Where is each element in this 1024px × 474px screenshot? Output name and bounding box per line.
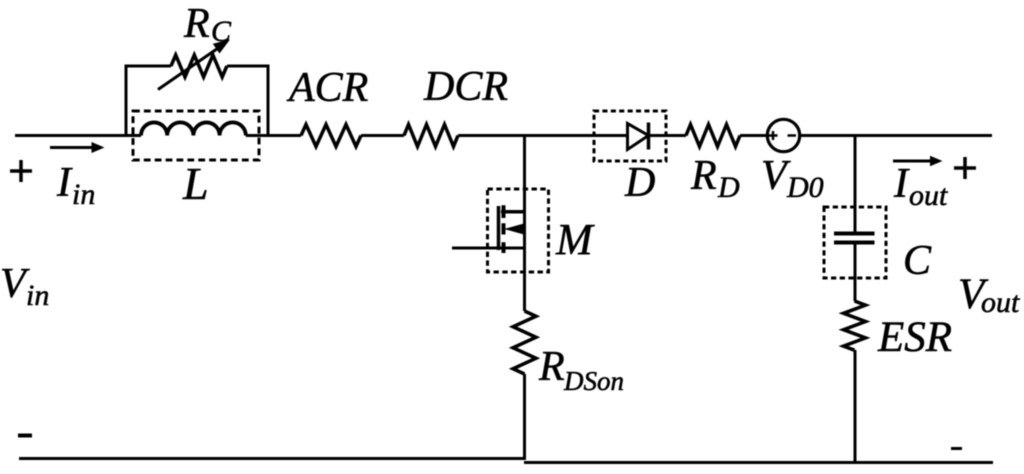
svg-text:M: M xyxy=(555,215,595,264)
svg-text:L: L xyxy=(182,158,209,209)
svg-text:D0: D0 xyxy=(786,171,824,204)
svg-text:in: in xyxy=(26,279,49,312)
svg-text:R: R xyxy=(538,344,565,390)
svg-text:I: I xyxy=(56,160,73,206)
svg-text:out: out xyxy=(981,286,1020,319)
svg-text:C: C xyxy=(211,15,232,48)
svg-text:D: D xyxy=(624,160,655,206)
svg-text:C: C xyxy=(903,238,932,284)
svg-text:DSon: DSon xyxy=(563,366,624,396)
svg-text:ACR: ACR xyxy=(286,65,368,111)
svg-text:R: R xyxy=(183,1,210,47)
svg-text:R: R xyxy=(690,153,717,199)
svg-text:I: I xyxy=(893,161,910,207)
svg-text:DCR: DCR xyxy=(423,64,508,110)
svg-text:ESR: ESR xyxy=(877,314,952,361)
svg-text:D: D xyxy=(717,171,740,204)
svg-text:out: out xyxy=(909,179,948,212)
svg-text:in: in xyxy=(72,178,95,211)
